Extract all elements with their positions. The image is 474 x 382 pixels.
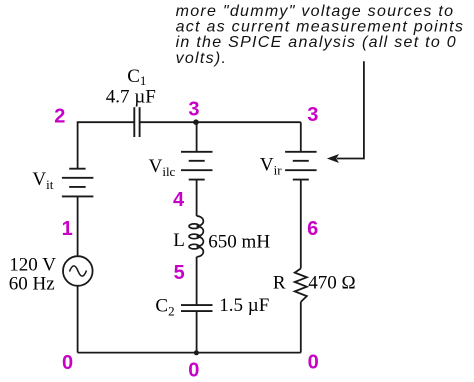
svg-text:Vilc: Vilc <box>149 156 176 179</box>
wire top horizontal left (node 2 to C1) <box>78 122 134 168</box>
wire left battery to AC source <box>77 196 79 256</box>
svg-text:Vit: Vit <box>32 169 53 192</box>
svg-text:4: 4 <box>173 189 185 211</box>
svg-text:0: 0 <box>308 351 319 373</box>
wire node 3 right down to V_ir <box>300 122 302 152</box>
svg-text:C2: C2 <box>155 296 174 319</box>
svg-text:C1: C1 <box>127 66 146 88</box>
svg-text:650 mH: 650 mH <box>208 232 270 253</box>
arrowhead <box>327 154 339 163</box>
svg-text:2: 2 <box>54 106 65 128</box>
wire node 3 to V_ilc <box>196 122 198 152</box>
svg-text:1: 1 <box>62 218 73 240</box>
wire V_ilc to inductor <box>196 180 198 216</box>
svg-text:1.5 µF: 1.5 µF <box>219 295 269 316</box>
svg-text:5: 5 <box>174 262 185 284</box>
AC source circle <box>63 256 93 286</box>
svg-text:L: L <box>173 230 185 251</box>
node 0 junction dot <box>194 350 199 355</box>
svg-text:120 V: 120 V <box>9 255 56 276</box>
battery V_it <box>62 169 94 197</box>
resistor R zigzag <box>295 269 307 302</box>
svg-text:R: R <box>273 272 286 293</box>
svg-text:6: 6 <box>307 218 318 240</box>
svg-text:60 Hz: 60 Hz <box>9 274 55 295</box>
svg-text:4.7 µF: 4.7 µF <box>106 87 156 108</box>
svg-text:470 Ω: 470 Ω <box>308 272 355 293</box>
annotation arrow <box>337 61 364 158</box>
sine wave <box>70 266 87 276</box>
wire inductor to C2 <box>196 257 198 305</box>
wire resistor to bottom rail <box>300 302 302 353</box>
battery V_ir <box>285 152 317 180</box>
annotation text <box>176 3 465 67</box>
svg-text:0: 0 <box>62 352 73 374</box>
svg-text:more "dummy" voltage sources t: more "dummy" voltage sources to <box>176 3 455 20</box>
svg-text:act as current measurement poi: act as current measurement points <box>176 18 465 35</box>
bottom wire <box>78 352 301 354</box>
wire top horizontal right (C1 to node 3 right) <box>140 121 301 123</box>
svg-text:in the SPICE analysis (all set: in the SPICE analysis (all set to 0 <box>176 34 457 51</box>
svg-text:Vir: Vir <box>260 154 282 177</box>
svg-text:3: 3 <box>307 104 318 126</box>
inductor L <box>189 216 203 257</box>
wire AC source to bottom rail <box>77 286 79 353</box>
capacitor C2 <box>181 305 213 311</box>
svg-text:volts).: volts). <box>176 50 228 67</box>
svg-text:0: 0 <box>188 359 199 381</box>
node 3 junction dot <box>193 119 199 125</box>
svg-text:3: 3 <box>188 99 199 121</box>
battery V_ilc <box>181 152 213 180</box>
wire V_ir to resistor <box>300 180 302 269</box>
capacitor C1 <box>134 107 139 137</box>
wire C2 to bottom rail <box>196 311 198 353</box>
